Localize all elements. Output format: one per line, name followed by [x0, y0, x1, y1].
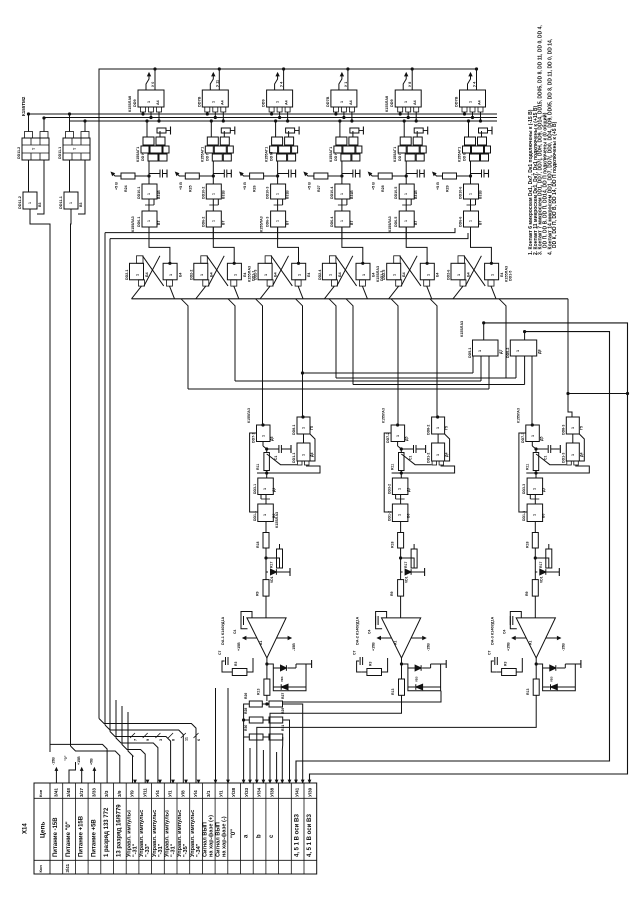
pin number mark column 4	[168, 733, 173, 738]
table column divider 12	[201, 783, 203, 874]
pin arrow into connector	[214, 780, 216, 782]
ground terminal АГ1	[230, 130, 235, 132]
svg-text:1: 1	[469, 101, 473, 103]
wire drop row C	[181, 299, 188, 389]
svg-text:R9: R9	[525, 591, 529, 596]
latch gate DD2-2 left	[194, 263, 208, 280]
svg-text:1: 1	[276, 101, 280, 103]
diode VD3	[535, 571, 537, 573]
input RC network chain 2	[382, 658, 388, 672]
svg-text:К155ЛА3: К155ЛА3	[382, 408, 386, 423]
capacitor-resistor box АГ1	[286, 128, 295, 133]
pin tab latch left top	[329, 256, 336, 263]
logic gate DD1-1b	[258, 504, 274, 522]
svg-text:DD М: DD М	[270, 152, 274, 161]
table column divider 14	[227, 783, 229, 874]
wire drop chain1 DD8 input	[296, 299, 303, 417]
IC DD12 К155АГ1 one-shot	[272, 137, 283, 145]
wire elbow bus4 to table	[105, 725, 183, 783]
svg-text:R17: R17	[404, 562, 408, 568]
svg-text:Д3: Д3	[407, 488, 411, 492]
wire latch cross 2	[401, 256, 417, 286]
svg-text:У 11: У 11	[215, 80, 219, 87]
wire АГ1 cluster pins up	[210, 121, 212, 137]
wire bus elbow to chain3	[568, 299, 572, 417]
pin arrow into connector	[276, 780, 278, 782]
wire latch cross 2	[466, 256, 482, 286]
svg-text:Е4: Е4	[179, 273, 183, 277]
wire latch cross 2	[273, 256, 289, 286]
svg-text:У/11: У/11	[142, 788, 147, 797]
pin number mark column 5	[181, 733, 186, 738]
svg-text:DD7-3: DD7-3	[521, 433, 525, 443]
pin arrow into connector	[134, 780, 136, 782]
table column divider 19	[290, 783, 292, 874]
logic gate DD6-1	[142, 211, 157, 227]
op-amp DA3 К140УД1А	[516, 618, 555, 658]
svg-text:Д5: Д5	[270, 437, 274, 441]
wire DD11-1 pin D up to bus	[69, 114, 71, 132]
resistor R18 chain 2	[398, 533, 404, 549]
resistor matrix row 3 left R30	[249, 734, 263, 740]
svg-text:Е4: Е4	[436, 273, 440, 277]
wire op-amp output chain 3	[535, 658, 537, 679]
net bus latch outputs	[132, 298, 569, 300]
wire R18 to diode	[400, 548, 402, 572]
ground terminal АГ1	[166, 130, 171, 132]
logic gate DD8-2	[432, 417, 445, 434]
net collector rail B	[110, 233, 468, 239]
svg-text:У 4: У 4	[473, 82, 477, 87]
wire resistor to DD3	[400, 471, 402, 479]
wire op-amp output chain 2	[401, 658, 403, 679]
net row C	[188, 388, 489, 390]
wire elbow bus7 to table	[122, 706, 145, 783]
diode VD1	[266, 571, 268, 573]
svg-text:3/48: 3/48	[66, 788, 71, 797]
svg-text:У/4: У/4	[155, 790, 160, 797]
svg-text:У 0: У 0	[151, 82, 155, 87]
svg-text:1: 1	[302, 427, 306, 429]
wire DD7-2 down	[397, 442, 399, 447]
svg-text:В7: В7	[350, 221, 354, 225]
wire latch left output to bus	[196, 286, 206, 299]
table column divider 2	[74, 783, 76, 874]
resistor R13	[533, 453, 539, 471]
latch gate DD2-5 left	[387, 263, 401, 280]
wire DD6-2 output down	[212, 227, 214, 239]
svg-text:К155ЛА8: К155ЛА8	[128, 96, 132, 112]
pin tab DD11-1 C	[81, 132, 89, 139]
svg-text:1: 1	[28, 202, 32, 204]
pin tab latch left bottom	[203, 280, 209, 286]
wire elbow bus8 to table	[128, 712, 133, 783]
svg-text:А4: А4	[349, 100, 353, 105]
resistor R18 chain 1	[263, 533, 269, 549]
wire latch cross 2	[208, 256, 224, 286]
svg-text:С7: С7	[487, 651, 491, 655]
svg-text:DD11-1: DD11-1	[59, 196, 63, 209]
IC DD15 К155АГ1 one-shot	[465, 137, 476, 145]
wire DD6-1 output down	[148, 227, 150, 239]
resistor R17 chain 1	[277, 549, 283, 568]
svg-text:DA-1 К140УД1А: DA-1 К140УД1А	[221, 616, 225, 645]
wire latch feed from DD6-1	[149, 227, 170, 263]
svg-text:DD10-1: DD10-1	[137, 187, 141, 199]
pin tab DD11-2 C	[40, 132, 48, 139]
logic gate DD3-1	[258, 478, 274, 495]
wire DD9.2 output up to rail	[218, 69, 220, 90]
svg-text:DD1-3: DD1-3	[561, 453, 565, 463]
latch gate DD2-4 right	[292, 263, 306, 280]
op-amp DA2 К140УД1А	[382, 618, 421, 658]
pin tabs DD9.2	[205, 107, 210, 112]
svg-text:1: 1	[276, 220, 280, 222]
wire chain3 to table	[257, 695, 536, 783]
table column Конт divider	[49, 783, 51, 874]
svg-text:1: 1	[233, 274, 237, 276]
resistor R18 chain 3	[532, 533, 538, 549]
wire resistor to DD3	[266, 471, 268, 479]
diode VD2	[401, 571, 403, 573]
svg-text:DD1-1: DD1-1	[253, 511, 257, 521]
svg-text:1: 1	[436, 454, 440, 456]
svg-text:3/3: 3/3	[104, 790, 109, 797]
svg-text:1: 1	[328, 274, 332, 276]
pin arrow into connector	[243, 780, 245, 782]
svg-text:+5 В: +5 В	[307, 182, 311, 190]
logic gate DD6-2	[206, 211, 221, 227]
wire DD9.2 pins to power bus	[206, 112, 208, 114]
wire DD1 down	[534, 522, 536, 533]
wire latch feed from DD6-5	[406, 227, 427, 263]
pin tab latch left bottom	[267, 280, 273, 286]
net chain 3 cross link	[526, 466, 589, 473]
svg-text:-15В: -15В	[292, 643, 296, 651]
pin tab latch right bottom	[295, 280, 301, 286]
svg-text:В31В: В31В	[414, 190, 418, 199]
svg-text:В7: В7	[221, 221, 225, 225]
table column divider 7	[138, 783, 140, 874]
svg-text:R17: R17	[539, 562, 543, 568]
svg-text:У/8: У/8	[180, 790, 185, 797]
capacitor C3	[278, 173, 289, 175]
pin tab DD1-1 right	[305, 461, 310, 465]
wire elbow bus1 to table	[50, 739, 107, 783]
pin arrow into connector	[288, 780, 290, 782]
svg-text:R13: R13	[391, 689, 395, 695]
svg-text:R9: R9	[256, 591, 260, 596]
wire АГ1 down to gate	[405, 161, 407, 184]
wire matrix center joins	[262, 703, 269, 705]
logic gate DD6-6	[464, 211, 479, 227]
svg-text:DD8-3: DD8-3	[561, 425, 565, 435]
svg-text:-15В: -15В	[561, 643, 565, 651]
wire resistor to column	[135, 175, 149, 177]
wire DD9.1 pins to power bus	[142, 112, 144, 114]
pin tab DD1-1 left	[298, 461, 303, 465]
svg-text:VD3: VD3	[415, 676, 419, 682]
svg-text:DD6-3: DD6-3	[266, 217, 270, 227]
diode limiter chain 2	[402, 664, 441, 691]
wire DD3 to DD1b	[400, 495, 402, 505]
svg-text:К155АГ1: К155АГ1	[393, 147, 397, 162]
svg-text:R11: R11	[256, 464, 260, 470]
table column divider 17	[265, 783, 267, 874]
logic gate DD10-2	[206, 184, 221, 199]
power bus -15V horizontal	[29, 113, 498, 115]
wire R11 top to DD1 tab	[267, 454, 297, 465]
pin tab DD1-2 left	[432, 461, 437, 465]
svg-text:Б4: Б4	[338, 272, 342, 277]
ground terminal АГ1	[488, 130, 493, 132]
svg-text:DD5-1: DD5-1	[468, 348, 472, 358]
wire DD8 to DD1 loop	[437, 434, 439, 443]
power bus 0V horizontal	[44, 117, 497, 119]
table column divider 18	[278, 783, 280, 874]
svg-text:R9: R9	[390, 591, 394, 596]
svg-text:DD3-2: DD3-2	[387, 484, 391, 494]
svg-text:3/1: 3/1	[206, 790, 211, 797]
svg-text:3/33: 3/33	[92, 788, 97, 797]
wire latch right output to bus	[298, 286, 303, 299]
power tap +5В	[93, 769, 95, 783]
svg-text:"-31": "-31"	[158, 843, 164, 857]
capacitor-resistor box АГ1	[157, 128, 166, 133]
svg-text:К155АГ1: К155АГ1	[458, 147, 462, 162]
wire bus rail 2	[104, 233, 106, 725]
svg-text:DD1-5: DD1-5	[509, 271, 513, 281]
pin tab latch left bottom	[396, 280, 402, 286]
svg-text:DD9: DD9	[262, 99, 266, 107]
logic gate DD7-3	[526, 425, 540, 442]
wire DD10 to DD5	[470, 199, 472, 211]
svg-text:К155АГ1: К155АГ1	[265, 147, 269, 162]
wire DD11-2 pin C up to bus	[43, 118, 45, 132]
svg-text:С4: С4	[233, 630, 237, 634]
wire АГ1 cluster pins up	[468, 121, 470, 137]
svg-text:-15В: -15В	[52, 757, 56, 765]
pin arrow into connector	[185, 780, 187, 782]
wire DD9.4 output up to rail	[347, 69, 349, 90]
wire АГ1 down to gate	[341, 161, 343, 184]
wire latch cross 1	[400, 256, 421, 286]
pin tab latch left bottom	[331, 280, 337, 286]
wire DD8 to DD1 loop	[303, 434, 305, 443]
wire DD10 to DD5	[148, 199, 150, 211]
svg-text:DD П: DD П	[398, 152, 402, 161]
table column divider 1	[62, 783, 64, 874]
pin tabs DD9.4	[333, 107, 338, 112]
svg-text:4, 5 1 В оси ВЗ: 4, 5 1 В оси ВЗ	[295, 814, 301, 857]
input RC network chain 3	[516, 658, 522, 672]
IC DD11 К155АГ1 one-shot	[207, 137, 218, 145]
svg-text:3/41: 3/41	[53, 788, 58, 797]
logic gate DD10-3	[271, 184, 286, 199]
svg-text:1: 1	[340, 101, 344, 103]
wire latch cross 1	[464, 256, 485, 286]
svg-text:Д4: Д4	[445, 453, 449, 457]
svg-text:1: 1	[263, 488, 267, 490]
resistor R29	[443, 173, 457, 179]
table column divider 9	[163, 783, 165, 874]
wire latch right output to bus	[234, 286, 239, 299]
svg-text:DD2-4: DD2-4	[318, 270, 322, 280]
wire resistor to DD3	[535, 471, 537, 479]
svg-text:R26: R26	[244, 693, 248, 699]
ground terminal АГ1	[359, 130, 364, 132]
pin tab latch right bottom	[359, 280, 365, 286]
svg-text:Питание +5В: Питание +5В	[91, 819, 97, 857]
svg-text:"-34": "-34"	[196, 843, 202, 857]
svg-text:+15В: +15В	[372, 642, 376, 651]
svg-text:Б4: Б4	[145, 272, 149, 277]
svg-text:Д4: Д4	[310, 453, 314, 457]
svg-text:DD7В: DD7В	[197, 96, 201, 107]
op-amp DA1 К140УД1А	[247, 618, 286, 658]
wire АГ1 cluster pins up	[403, 121, 405, 137]
wire DD6-3 output down	[277, 227, 279, 239]
svg-text:R27: R27	[317, 185, 321, 192]
svg-text:R17: R17	[270, 562, 274, 568]
svg-text:1: 1	[491, 274, 495, 276]
net collector rail A	[105, 228, 455, 233]
svg-text:В7: В7	[414, 221, 418, 225]
svg-text:В7: В7	[479, 221, 483, 225]
wire latch cross 1	[335, 256, 356, 286]
wire latch left output to bus	[132, 286, 142, 299]
wire drop chain2 DD8 input	[430, 299, 437, 417]
terminal arrow output U0	[146, 74, 149, 90]
svg-text:К155ЛА3: К155ЛА3	[260, 216, 264, 232]
power arrow +15В chain 1	[244, 637, 257, 639]
svg-text:R24: R24	[124, 185, 128, 192]
capacitor C4	[342, 173, 353, 175]
svg-text:Питание -15В: Питание -15В	[53, 817, 59, 857]
svg-text:R18: R18	[391, 542, 395, 548]
svg-text:1: 1	[69, 202, 73, 204]
svg-text:1: 1	[264, 274, 268, 276]
svg-text:DA-2 К140УД1А: DA-2 К140УД1А	[356, 616, 360, 645]
wire op-amp1 input leg to table	[227, 688, 229, 783]
svg-text:DD3-3: DD3-3	[522, 484, 526, 494]
wire R9 to op-amp	[534, 596, 536, 618]
svg-text:Д4: Д4	[579, 453, 583, 457]
svg-text:R28: R28	[381, 185, 385, 192]
wire DD10 to DD5	[212, 199, 214, 211]
svg-text:1: 1	[200, 274, 204, 276]
wire DD9.3 output up to rail	[283, 69, 285, 90]
pin arrow into connector	[262, 780, 264, 782]
svg-text:1: 1	[478, 350, 482, 352]
pin arrow into connector	[227, 780, 229, 782]
latch gate DD2-1 left	[130, 263, 144, 280]
ground terminal АГ1	[423, 130, 428, 132]
pin tab latch left top	[265, 256, 272, 263]
svg-text:Кон: Кон	[38, 865, 43, 873]
wire latch left output to bus	[260, 286, 270, 299]
resistor R9 chain 2	[400, 572, 402, 580]
svg-text:DD К, DD П, DD В, DD 14, DD П: DD К, DD П, DD В, DD 14, DD П подключены…	[552, 121, 558, 248]
wire DD9.6 output up to rail	[476, 69, 478, 90]
wire matrix row2 out	[283, 720, 290, 783]
pin tab DD1-3 right	[574, 461, 579, 465]
svg-text:DD1-3: DD1-3	[522, 511, 526, 521]
wire matrix frame to table	[243, 737, 245, 783]
wire АГ1 down to gate	[148, 161, 150, 184]
pin arrow into connector	[295, 780, 297, 782]
svg-text:С4: С4	[502, 630, 506, 634]
svg-text:1: 1	[457, 274, 461, 276]
svg-text:+5 В: +5 В	[115, 182, 119, 190]
power tap 0	[69, 762, 76, 783]
latch gate DD2-6 left	[451, 263, 465, 280]
IC DD14 К155АГ1 one-shot	[400, 137, 411, 145]
svg-text:1: 1	[436, 427, 440, 429]
IC DD9.6 (К155ЛА8 top box)	[460, 90, 486, 107]
wire АГ1 down to gate	[470, 161, 472, 184]
resistor R27	[314, 173, 328, 179]
power arrow -15В chain 3	[546, 637, 560, 639]
wire resistor to column	[392, 175, 406, 177]
ground diode limiter chain 2	[441, 663, 447, 665]
svg-text:С7: С7	[218, 651, 222, 655]
net row A	[303, 372, 474, 374]
power arrow -15В chain 1	[277, 637, 291, 639]
pin tab DD1-3 left	[567, 461, 572, 465]
wire latch left output to bus	[453, 286, 463, 299]
resistor matrix row 1 left R26	[249, 701, 262, 707]
svg-text:R13: R13	[257, 689, 261, 695]
svg-text:У/39: У/39	[307, 787, 312, 797]
svg-text:А4: А4	[478, 100, 482, 105]
pin number mark column 2	[143, 733, 148, 738]
wire DD7-3 down	[531, 442, 533, 447]
svg-text:R29: R29	[281, 708, 285, 714]
terminal arrow output U4	[403, 74, 406, 90]
ground diode limiter chain 3	[575, 663, 581, 665]
IC DD9.2 (К155ЛА8 top box)	[202, 90, 228, 107]
logic gate DD6-5	[399, 211, 414, 227]
resistor R13 chain 3	[533, 679, 539, 695]
svg-text:1: 1	[340, 193, 344, 195]
svg-text:DA-3 К140УД1А: DA-3 К140УД1А	[490, 616, 494, 645]
wire АГ1 cluster pins up	[275, 121, 277, 137]
IC DD13 К155АГ1 one-shot	[336, 137, 347, 145]
wire latch right output to bus	[170, 286, 175, 299]
capacitor-resistor box АГ1	[221, 128, 230, 133]
wire chain1 output to resistor matrix	[266, 695, 268, 701]
wire link chain3 top	[568, 393, 628, 395]
svg-text:У/34: У/34	[257, 787, 262, 797]
logic gate DD10-4	[335, 184, 350, 199]
svg-text:В31В: В31В	[350, 190, 354, 199]
resistor R24	[121, 173, 135, 179]
wire DD11-1 pin C up to bus	[84, 121, 86, 132]
wire drop chain2 input	[391, 299, 398, 425]
wire DD11-2 Q to inverter	[28, 160, 30, 192]
pin tab DD11-2 D	[25, 132, 33, 139]
svg-text:DD1-2: DD1-2	[427, 453, 431, 463]
net link DD5-2 row 2	[353, 384, 525, 386]
svg-text:С1: С1	[543, 456, 547, 460]
terminal arrow output U5	[468, 74, 471, 90]
svg-text:DD В: DD В	[463, 152, 467, 161]
pin tab latch left bottom	[139, 280, 145, 286]
wire DD5-2 pin to chain3 DD7-3	[531, 356, 533, 425]
logic gate DD10-1	[142, 184, 157, 199]
svg-text:А4: А4	[413, 100, 417, 105]
